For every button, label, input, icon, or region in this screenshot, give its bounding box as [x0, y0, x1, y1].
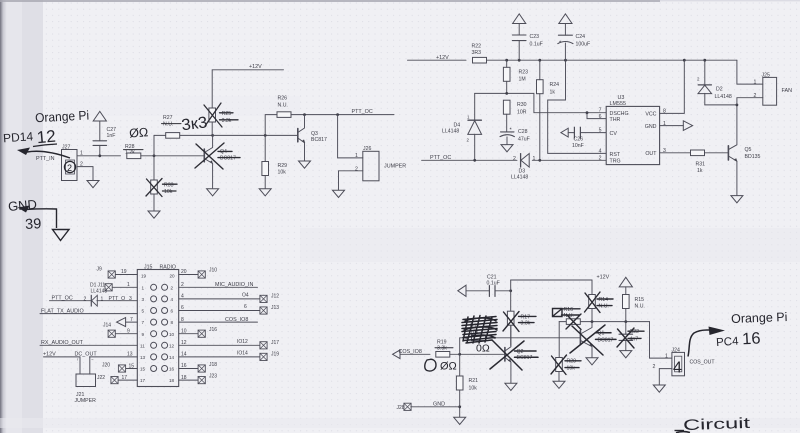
wire R16 net line: [559, 321, 649, 323]
transistor Q5: [728, 105, 760, 195]
svg-text:J17: J17: [271, 340, 279, 346]
resistor R22: [472, 44, 487, 63]
diode D1 inline on pin3: [84, 295, 133, 306]
svg-text:0Ω: 0Ω: [476, 343, 490, 355]
svg-text:8: 8: [171, 320, 174, 325]
svg-text:J23: J23: [209, 373, 217, 379]
svg-text:RST: RST: [610, 152, 621, 158]
svg-text:6: 6: [181, 305, 184, 311]
svg-text:2: 2: [599, 155, 602, 161]
connector J20: [102, 363, 134, 373]
ground below R20: [553, 381, 565, 388]
handwritten ground symbol below 39: [53, 230, 70, 241]
power arrow above C27: [93, 111, 106, 121]
svg-text:D2: D2: [716, 87, 723, 93]
power arrow above C24: [559, 14, 572, 24]
connector J26: [355, 146, 406, 181]
svg-text:1: 1: [533, 156, 536, 162]
svg-text:J24: J24: [672, 347, 680, 353]
svg-text:R15: R15: [635, 297, 645, 303]
connector J23: [181, 373, 217, 383]
svg-text:17: 17: [122, 375, 128, 381]
transistor Q1 (crossed out): [570, 322, 616, 358]
svg-text:0.1uF: 0.1uF: [487, 281, 500, 287]
junction R30 top: [505, 92, 508, 95]
svg-text:+12V: +12V: [43, 352, 56, 358]
svg-text:R21: R21: [469, 378, 479, 384]
wire R28 to Q4 base: [141, 155, 205, 157]
svg-text:3: 3: [663, 148, 666, 154]
connector J24: [653, 347, 716, 375]
wire J27 pin1 to R28: [77, 155, 121, 157]
ground below R21: [454, 417, 466, 424]
svg-text:N.U.: N.U.: [635, 304, 645, 310]
connector J9: [97, 266, 127, 278]
svg-text:+12V: +12V: [249, 64, 262, 70]
wire pin13 line DC_OUT/+12V: [43, 352, 137, 358]
svg-text:3R3: 3R3: [472, 50, 482, 56]
svg-text:BC817: BC817: [220, 155, 236, 161]
wire pin3 line PTT_OC: [50, 296, 138, 302]
junction base line / R26-R29 column: [264, 134, 267, 137]
resistor R30: [503, 100, 526, 131]
wire J25 pin2 down: [737, 98, 763, 105]
capacitor C22 (crossed out): [617, 322, 644, 351]
svg-text:3: 3: [129, 296, 132, 302]
svg-text:Q4: Q4: [220, 149, 227, 155]
svg-text:2: 2: [754, 93, 757, 99]
connector J15 RADIO header box: [137, 264, 178, 386]
svg-text:PC4: PC4: [716, 336, 740, 350]
ground arrow at U3 GND: [683, 121, 692, 131]
resistor R17 (crossed out): [503, 311, 536, 331]
svg-text:20: 20: [170, 273, 176, 278]
handwritten blob and 0 ohm on COS line: [425, 359, 436, 371]
connector J27: [36, 144, 83, 180]
svg-text:2: 2: [653, 364, 656, 370]
connector J10: [181, 268, 217, 279]
ground at J27 pin2: [87, 181, 99, 188]
transistor Q4 (crossed out): [195, 135, 240, 188]
net PTT_OC line: [422, 155, 606, 161]
connector stub pin9 port: [108, 328, 130, 337]
svg-text:J18: J18: [209, 362, 217, 368]
svg-text:11: 11: [140, 343, 145, 348]
svg-text:PTT_O: PTT_O: [109, 296, 126, 302]
ground below C28: [501, 145, 513, 152]
connector J18: [181, 362, 217, 372]
svg-text:R26: R26: [278, 96, 288, 102]
wire net to J24 pin1: [650, 322, 672, 359]
svg-text:R20: R20: [567, 359, 577, 365]
svg-text:N.U.: N.U.: [599, 304, 609, 310]
svg-text:RX_AUDIO_OUT: RX_AUDIO_OUT: [41, 340, 84, 346]
svg-text:JUMPER: JUMPER: [384, 163, 406, 169]
connector J16: [181, 327, 217, 337]
junction COS/R21 column: [458, 353, 461, 356]
svg-text:9: 9: [142, 332, 145, 337]
handwritten arrow to PD14: [17, 148, 70, 159]
faint scan streaks: [300, 228, 800, 262]
svg-text:12: 12: [169, 343, 175, 348]
J15 pin circles: [151, 284, 168, 371]
svg-text:Orange Pi: Orange Pi: [35, 107, 90, 125]
capacitor C26 on CV: [568, 127, 606, 149]
svg-text:R17: R17: [521, 314, 531, 320]
wire pin16 stub: [179, 368, 198, 370]
svg-text:N.U.: N.U.: [163, 122, 173, 128]
wire pin9 stub: [116, 333, 138, 335]
svg-text:1.2k: 1.2k: [125, 149, 135, 155]
connector J11: [90, 282, 130, 294]
svg-text:JUMPER: JUMPER: [75, 398, 97, 404]
svg-text:GND: GND: [7, 197, 37, 214]
svg-text:BC817: BC817: [517, 355, 533, 361]
resistor R14 (crossed out): [585, 292, 614, 313]
power arrow above R15: [619, 277, 632, 294]
svg-text:39: 39: [25, 216, 42, 233]
resistor R16 (crossed out): [562, 307, 582, 330]
svg-text:2: 2: [84, 296, 87, 302]
handwritten circled 2 in J27: [64, 161, 75, 173]
svg-text:3.3k: 3.3k: [222, 118, 232, 124]
svg-text:9: 9: [127, 328, 130, 334]
svg-text:15: 15: [129, 363, 135, 369]
J15 inner pin numbers: [140, 273, 175, 383]
svg-text:J19: J19: [271, 352, 279, 358]
svg-text:J10: J10: [209, 268, 217, 274]
svg-text:7: 7: [142, 320, 145, 325]
svg-text:MIC_AUDIO_IN: MIC_AUDIO_IN: [215, 282, 253, 288]
svg-text:J28: J28: [397, 405, 405, 411]
connector J25: [754, 72, 793, 105]
net arrow left of C21: [458, 285, 466, 296]
diode D2: [697, 60, 732, 105]
svg-text:1M: 1M: [519, 77, 526, 83]
wire pin8 line COS_IO8: [179, 317, 258, 323]
heavy pen scribble over R18: [462, 316, 497, 344]
svg-text:1: 1: [127, 282, 130, 288]
wire R18 line to Q1 base: [460, 337, 581, 339]
handwritten small box with slash left of R16: [553, 309, 563, 317]
capacitor C23: [512, 24, 542, 61]
svg-text:CV: CV: [610, 131, 618, 137]
wire vertical R27 left lead down to R33: [153, 135, 155, 180]
junction R23 top: [505, 59, 508, 62]
svg-text:LL4148: LL4148: [511, 175, 528, 181]
+12V rail: [408, 55, 737, 61]
ground below Q2: [505, 383, 517, 390]
svg-text:J21: J21: [76, 392, 84, 398]
net arrow COS_IO8: [393, 349, 422, 358]
ground below Q4: [207, 189, 219, 196]
svg-text:17: 17: [140, 378, 146, 383]
svg-text:2: 2: [513, 156, 516, 162]
svg-text:FLAT_TX_AUDIO: FLAT_TX_AUDIO: [41, 308, 84, 314]
svg-text:10k: 10k: [567, 366, 576, 372]
connector J21: [75, 356, 97, 404]
wire VCC to rail: [660, 60, 685, 113]
wire pin4 line: [179, 292, 260, 299]
junction R27 line / R25 column: [211, 134, 214, 137]
connector J22: [97, 375, 127, 384]
svg-text:O4: O4: [242, 292, 249, 298]
svg-text:PTT_OC: PTT_OC: [52, 296, 73, 302]
handwritten GND arrow and wire: [18, 206, 57, 229]
junction R24 bottom: [538, 159, 541, 162]
svg-text:J14: J14: [103, 322, 111, 328]
svg-text:C28: C28: [518, 129, 528, 135]
svg-text:10: 10: [169, 332, 175, 337]
svg-text:J22: J22: [97, 375, 105, 381]
wire GND line: [411, 402, 460, 408]
svg-text:RADIO: RADIO: [160, 264, 176, 270]
junction C21/R17 column: [509, 289, 512, 292]
svg-text:J15: J15: [144, 264, 152, 270]
svg-text:PTT_IN: PTT_IN: [36, 156, 55, 162]
ground below C22: [620, 351, 632, 358]
wire OUT to R31: [660, 152, 691, 154]
svg-text:ØΩ: ØΩ: [129, 125, 149, 140]
svg-text:C21: C21: [487, 274, 497, 280]
svg-text:R23: R23: [519, 69, 529, 75]
ground arrow left of C26: [561, 128, 568, 137]
svg-text:47uF: 47uF: [518, 136, 530, 142]
wire C21 net: [466, 290, 511, 292]
connector J12: [260, 294, 279, 303]
svg-text:1k: 1k: [697, 168, 703, 174]
net arrow J14: [103, 317, 133, 328]
svg-text:5: 5: [142, 309, 145, 314]
left page-edge shadow band: [0, 0, 7, 433]
svg-text:3: 3: [142, 297, 145, 302]
svg-text:COS_IO8: COS_IO8: [225, 317, 248, 323]
svg-text:LM555: LM555: [610, 101, 626, 107]
svg-text:R29: R29: [278, 163, 288, 169]
svg-text:1: 1: [355, 153, 358, 159]
junction at C27/main wire: [98, 154, 101, 157]
op-amp-style IC U3 LM555: [599, 95, 666, 165]
wire RST tie to +12V: [548, 60, 606, 153]
svg-text:R27: R27: [163, 115, 173, 121]
svg-text:PD14: PD14: [3, 129, 34, 145]
svg-text:4n7: 4n7: [630, 336, 639, 342]
wire riser to R18 line and down to R21: [459, 338, 461, 417]
connector J19: [260, 352, 279, 361]
svg-text:C23: C23: [530, 34, 540, 40]
+12V rail bottom section: [511, 275, 610, 281]
svg-text:18: 18: [169, 378, 175, 383]
svg-text:J27: J27: [62, 144, 70, 150]
svg-text:VCC: VCC: [645, 112, 656, 118]
junction pin6 branch: [586, 111, 589, 114]
diode D4: [442, 93, 482, 160]
svg-text:J26: J26: [363, 146, 371, 152]
junction C23: [518, 59, 521, 62]
svg-text:Q5: Q5: [745, 147, 752, 153]
wire PTT_OC to J26 pin1: [338, 115, 363, 158]
resistor R24: [537, 60, 560, 160]
svg-text:LL4148: LL4148: [442, 128, 459, 134]
svg-text:2: 2: [67, 163, 72, 173]
svg-text:0.1uF: 0.1uF: [530, 41, 543, 47]
wire pin19 stub: [116, 274, 138, 276]
handwritten arrow from J24 to PC4: [688, 327, 725, 357]
svg-text:J9: J9: [97, 266, 103, 272]
svg-text:Circuit: Circuit: [683, 415, 752, 433]
svg-text:J13: J13: [271, 305, 279, 311]
wire pin20 stub: [179, 274, 198, 276]
svg-text:3.3k: 3.3k: [437, 346, 447, 352]
svg-text:6: 6: [599, 114, 602, 120]
svg-text:10nF: 10nF: [572, 143, 584, 149]
svg-text:10R: 10R: [517, 110, 527, 116]
svg-text:J20: J20: [102, 363, 110, 369]
svg-text:ØΩ: ØΩ: [440, 361, 457, 373]
resistor R33 (crossed out): [146, 179, 177, 211]
wire pin15 stub: [126, 368, 137, 370]
svg-text:R22: R22: [472, 44, 482, 50]
svg-text:GND: GND: [433, 402, 445, 408]
top edge line: [0, 0, 660, 2]
svg-text:20: 20: [181, 269, 187, 275]
svg-text:R33: R33: [164, 183, 174, 189]
svg-text:LL4148: LL4148: [91, 288, 108, 294]
svg-text:6: 6: [171, 309, 174, 314]
resistor R21: [456, 376, 478, 392]
svg-text:1: 1: [754, 79, 757, 85]
svg-text:LL4148: LL4148: [715, 94, 732, 100]
svg-text:10: 10: [181, 328, 187, 334]
wire rail corner down through R14: [591, 280, 593, 322]
svg-text:1: 1: [101, 296, 104, 302]
svg-text:10k: 10k: [278, 169, 287, 175]
svg-text:Q2: Q2: [517, 349, 524, 355]
svg-text:BC817: BC817: [311, 137, 327, 143]
wire pin14 line: [179, 351, 260, 358]
svg-text:10k: 10k: [164, 189, 173, 195]
svg-text:THR: THR: [610, 117, 621, 123]
wire R26 to PTT_OC net: [291, 114, 394, 116]
svg-text:4: 4: [673, 360, 682, 377]
wire pin5 line FLAT_TX_AUDIO: [40, 308, 137, 314]
+12V net top-left: [212, 64, 283, 70]
ground below Q5: [731, 196, 743, 203]
svg-text:7: 7: [130, 317, 133, 323]
junction VCC riser: [683, 59, 686, 62]
wire pin7 stub: [126, 321, 138, 323]
junction C24/RST: [564, 59, 567, 62]
svg-text:C24: C24: [576, 34, 586, 40]
svg-text:1: 1: [142, 285, 145, 290]
resistor R23: [503, 60, 528, 93]
wire R31 to Q5 base: [705, 152, 729, 154]
capacitor C27: [93, 121, 116, 156]
svg-text:10k: 10k: [469, 386, 478, 392]
svg-text:IO12: IO12: [237, 339, 248, 345]
diode D3 inline: [511, 154, 536, 181]
ground below R29: [259, 189, 271, 196]
svg-text:14: 14: [181, 352, 187, 358]
svg-text:8: 8: [181, 317, 184, 323]
wire R17 column: [510, 280, 512, 346]
svg-text:19: 19: [121, 269, 127, 275]
svg-text:C26: C26: [574, 137, 584, 143]
svg-text:13: 13: [140, 355, 146, 360]
svg-text:4: 4: [599, 148, 602, 154]
junction Q3 collector: [303, 113, 306, 116]
connector J13: [260, 305, 279, 314]
svg-text:1: 1: [665, 353, 668, 359]
ground below Q3: [299, 161, 311, 168]
junction R15/C22 column: [624, 320, 627, 323]
wire GND pin stub: [660, 125, 684, 127]
power arrow above C23: [513, 14, 526, 24]
svg-text:16: 16: [169, 367, 175, 372]
svg-text:TRG: TRG: [610, 158, 621, 164]
junction D2 top: [703, 59, 706, 62]
wire R27 line to Q3 base: [213, 134, 298, 136]
junction GND line: [458, 405, 461, 408]
svg-text:R24: R24: [550, 82, 560, 88]
svg-text:R30: R30: [517, 102, 527, 108]
svg-text:N.U.: N.U.: [278, 103, 288, 109]
svg-text:Orange Pi: Orange Pi: [731, 310, 788, 326]
wire R19 to Q2 base: [450, 353, 505, 355]
junction D4 anode: [473, 159, 476, 162]
wire pin12 line: [179, 339, 260, 346]
transistor Q2 (crossed out): [490, 325, 538, 383]
svg-text:4: 4: [171, 297, 174, 302]
wire pin2 line MIC_AUDIO_IN: [179, 282, 258, 288]
svg-text:IO14: IO14: [237, 351, 248, 357]
svg-text:Q3: Q3: [311, 131, 318, 137]
wire pin11 line RX_AUDIO_OUT: [40, 340, 137, 346]
wire pin6 line: [179, 304, 260, 311]
svg-text:1k: 1k: [550, 89, 556, 95]
svg-text:3.3k: 3.3k: [521, 321, 531, 327]
resistor R28: [124, 144, 144, 159]
svg-text:5: 5: [599, 128, 602, 134]
svg-text:OUT: OUT: [645, 151, 657, 157]
wire pin18 stub: [179, 379, 198, 381]
svg-text:14: 14: [169, 355, 175, 360]
svg-text:+12V: +12V: [436, 55, 449, 61]
svg-text:R31: R31: [696, 162, 706, 168]
transistor Q3: [298, 115, 327, 161]
svg-text:16: 16: [742, 329, 761, 348]
resistor R15: [623, 295, 645, 322]
svg-text:12: 12: [181, 340, 187, 346]
resistor R19: [435, 340, 453, 358]
ground below R33: [148, 211, 160, 218]
resistor R18 (scribbled out): [470, 323, 486, 340]
svg-text:+12V: +12V: [597, 275, 610, 281]
svg-text:PTT_OC: PTT_OC: [352, 109, 373, 115]
svg-text:18: 18: [181, 375, 187, 381]
ground below J24 pin2: [653, 385, 665, 392]
connector J17: [260, 340, 279, 349]
wire pin17 stub: [118, 379, 137, 381]
svg-text:2: 2: [355, 166, 358, 172]
svg-text:19: 19: [141, 273, 147, 278]
svg-text:PTT_OC: PTT_OC: [430, 155, 451, 161]
wire J26 pin2 to ground: [339, 171, 363, 190]
junction main wire / R27-R33 column: [153, 154, 156, 157]
svg-text:J16: J16: [209, 327, 217, 333]
junction J26 drop: [336, 113, 339, 116]
resistor R26: [277, 96, 291, 118]
